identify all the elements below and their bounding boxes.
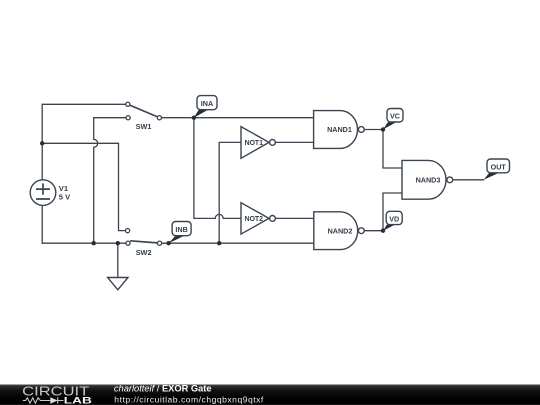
voltage source V1 bbox=[30, 180, 71, 206]
svg-text:LAB: LAB bbox=[64, 395, 92, 405]
nand gate NAND2 bbox=[314, 212, 364, 250]
node VC flag bbox=[383, 109, 403, 130]
wire NOT1 input vertical to INB rail bbox=[219, 142, 241, 243]
inverter NOT1 bbox=[241, 127, 275, 159]
svg-text:5 V: 5 V bbox=[59, 192, 71, 201]
wire INA net SW1 to NAND1 top input bbox=[162, 117, 314, 119]
wire bottom rail bbox=[42, 242, 126, 244]
svg-text:NAND2: NAND2 bbox=[328, 226, 353, 235]
node INA flag bbox=[194, 96, 217, 118]
wire NOT1 output to NAND1 lower input bbox=[275, 141, 313, 143]
wire NOT2 output to NAND2 top input bbox=[275, 217, 313, 219]
wire INA vertical to NOT2 with hop bbox=[194, 118, 241, 219]
wire ground stem bbox=[117, 243, 119, 277]
wire INB rail to NAND2 lower input bbox=[162, 242, 314, 244]
switch SW2 bbox=[126, 229, 162, 258]
svg-text:OUT: OUT bbox=[491, 162, 507, 171]
wire SW1 bottom throw drop with hop bbox=[94, 118, 126, 244]
svg-text:NOT1: NOT1 bbox=[245, 140, 264, 147]
node INB flag bbox=[169, 222, 192, 244]
nand gate NAND3 bbox=[402, 160, 453, 199]
ground bbox=[108, 278, 128, 290]
wire top rail V1+ to SW1 top throw bbox=[42, 104, 126, 143]
footer bar bbox=[0, 385, 540, 405]
nand gate NAND1 bbox=[314, 111, 365, 149]
inverter NOT2 bbox=[241, 203, 275, 234]
svg-text:VC: VC bbox=[390, 112, 400, 121]
wire branch to SW2 top throw bbox=[42, 143, 125, 230]
svg-text:SW2: SW2 bbox=[136, 248, 152, 257]
node OUT flag bbox=[484, 159, 510, 180]
svg-text:NOT2: NOT2 bbox=[245, 216, 264, 223]
switch SW1 bbox=[126, 102, 162, 131]
svg-text:charlotteif / EXOR Gate: charlotteif / EXOR Gate bbox=[114, 384, 212, 394]
svg-text:INB: INB bbox=[175, 225, 187, 234]
wire V1 bottom lead bbox=[41, 205, 43, 243]
svg-text:SW1: SW1 bbox=[136, 122, 152, 131]
wire NAND3 output bbox=[453, 179, 484, 181]
svg-text:INA: INA bbox=[201, 99, 213, 108]
logo resistor and diode motif bbox=[23, 397, 64, 403]
svg-text:http://circuitlab.com/chgqbxnq: http://circuitlab.com/chgqbxnq9qtxf bbox=[114, 395, 264, 405]
wire NAND2 output to VD node and NAND3 lower input bbox=[364, 193, 402, 231]
svg-text:VD: VD bbox=[389, 214, 399, 223]
svg-text:NAND3: NAND3 bbox=[416, 175, 441, 184]
wire V1 top lead bbox=[41, 143, 43, 180]
wire NAND1 output to VC node and NAND3 upper input bbox=[364, 130, 402, 169]
junction node dots bbox=[40, 116, 385, 246]
node VD flag bbox=[383, 211, 402, 230]
svg-text:NAND1: NAND1 bbox=[327, 125, 352, 134]
